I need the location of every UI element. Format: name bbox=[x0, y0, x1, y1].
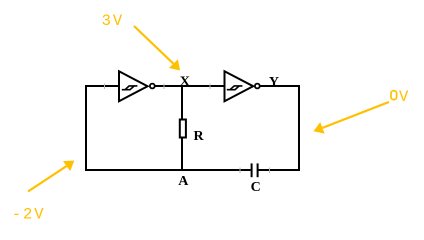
U1 hysteresis glyph bbox=[122, 86, 138, 90]
U1 output bubble bbox=[150, 84, 155, 89]
wire U1 output to U2 input (node X net) bbox=[155, 85, 225, 87]
op-amp U2 (Schmitt inverter, triangle) bbox=[225, 71, 254, 101]
annotation arrow 3V to node X bbox=[134, 26, 173, 64]
svg-text:Y: Y bbox=[269, 75, 279, 90]
annotation arrow 0V to right rail bbox=[322, 102, 389, 128]
annotation 0V label bbox=[391, 91, 397, 100]
junction tick marks bbox=[105, 84, 270, 174]
op-amp U1 (Schmitt inverter, triangle) bbox=[119, 71, 148, 101]
wire X to resistor top bbox=[181, 86, 183, 120]
svg-text:3V: 3V bbox=[102, 12, 125, 30]
svg-text:A: A bbox=[178, 174, 189, 189]
wire left L (input net from -2V rail) bbox=[86, 86, 119, 171]
U2 output bubble bbox=[255, 84, 260, 89]
wire bottom left segment bbox=[85, 169, 251, 171]
svg-text:C: C bbox=[251, 180, 261, 195]
svg-text:R: R bbox=[193, 129, 204, 144]
annotation arrow -2V to left rail bbox=[28, 166, 67, 191]
capacitor C plates bbox=[252, 163, 258, 177]
resistor R (box symbol) bbox=[180, 120, 186, 138]
svg-text:V: V bbox=[399, 88, 410, 106]
svg-text:X: X bbox=[180, 74, 190, 89]
wire U2 output to right corner (node Y net) bbox=[260, 85, 300, 87]
wire bottom right segment bbox=[259, 169, 301, 171]
wire resistor bottom to node A bbox=[181, 139, 183, 171]
svg-text:-2V: -2V bbox=[12, 205, 46, 223]
U2 hysteresis glyph bbox=[227, 86, 243, 90]
wire right vertical bbox=[298, 85, 300, 170]
